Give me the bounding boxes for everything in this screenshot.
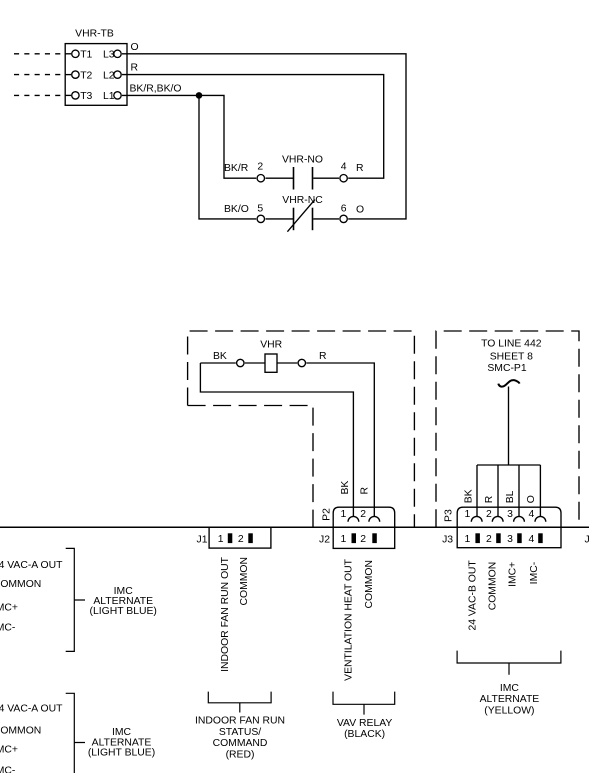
wire into coil left bbox=[200, 362, 235, 364]
P3 pin 1 socket arc bbox=[471, 516, 482, 521]
board edge line bbox=[0, 526, 589, 528]
svg-text:VHR-TB: VHR-TB bbox=[75, 28, 114, 39]
svg-text:R: R bbox=[131, 63, 139, 74]
svg-text:IMC: IMC bbox=[500, 683, 520, 694]
svg-text:COMMAND: COMMAND bbox=[213, 738, 268, 749]
brace group 2 bbox=[66, 693, 85, 773]
svg-text:24 VAC-B OUT: 24 VAC-B OUT bbox=[468, 560, 479, 631]
J3 group brace bbox=[457, 651, 561, 675]
wire R from L2 to VHR-NO pin 4 bbox=[122, 75, 384, 179]
P2 pin 1 socket arc bbox=[348, 516, 359, 521]
svg-text:6: 6 bbox=[341, 203, 347, 214]
dashed enclosure left notch bbox=[188, 406, 313, 528]
svg-text:(YELLOW): (YELLOW) bbox=[484, 705, 534, 716]
svg-text:2: 2 bbox=[238, 534, 244, 545]
J2 group brace bbox=[333, 692, 395, 715]
wire BK/R,BK/O from L1 to VHR-NO pin 2 bbox=[122, 95, 256, 178]
J3 pin 1 contact bbox=[475, 533, 480, 543]
P3 pin 4 socket arc bbox=[535, 516, 546, 521]
svg-text:2: 2 bbox=[257, 161, 263, 172]
connector P2 outline bbox=[333, 507, 395, 527]
wire R side to P2 pin 2 bbox=[306, 363, 374, 517]
svg-text:R: R bbox=[484, 495, 495, 503]
wire branch to VHR-NC pin 5 bbox=[199, 95, 256, 218]
wire to P3 pin 3 bbox=[518, 465, 520, 517]
svg-text:5: 5 bbox=[257, 203, 263, 214]
svg-text:SMC-P1: SMC-P1 bbox=[487, 363, 526, 374]
svg-text:(LIGHT BLUE): (LIGHT BLUE) bbox=[88, 748, 155, 759]
J3 pin 4 contact bbox=[538, 533, 543, 543]
P2 pin 2 socket arc bbox=[369, 516, 380, 521]
svg-text:VHR-NC: VHR-NC bbox=[282, 195, 323, 206]
dashed enclosure right (SMC area) bbox=[436, 331, 579, 527]
terminal T3 bbox=[65, 91, 92, 102]
svg-text:IMC+: IMC+ bbox=[508, 562, 519, 587]
svg-text:IMC+: IMC+ bbox=[0, 603, 18, 614]
svg-text:1: 1 bbox=[218, 534, 224, 545]
bus bar to P3 bbox=[477, 464, 540, 466]
svg-text:COMMON: COMMON bbox=[488, 562, 499, 610]
svg-text:BK: BK bbox=[340, 481, 351, 495]
svg-text:R: R bbox=[360, 487, 371, 495]
J1 group brace bbox=[208, 692, 271, 713]
relay contact VHR-NO bbox=[224, 154, 364, 189]
connector J3 outline bbox=[457, 527, 561, 547]
connector P3 outline bbox=[457, 507, 561, 527]
wire coil to circle bbox=[277, 362, 297, 364]
svg-text:ALTERNATE: ALTERNATE bbox=[480, 694, 540, 705]
svg-text:2: 2 bbox=[360, 509, 366, 520]
svg-text:1: 1 bbox=[341, 534, 347, 545]
svg-text:2: 2 bbox=[486, 534, 492, 545]
svg-text:BK/O: BK/O bbox=[224, 204, 249, 215]
svg-text:BK/R: BK/R bbox=[224, 163, 249, 174]
svg-text:VENTILATION HEAT OUT: VENTILATION HEAT OUT bbox=[343, 558, 354, 680]
svg-text:2: 2 bbox=[486, 509, 492, 520]
svg-text:BK/R,BK/O: BK/R,BK/O bbox=[130, 84, 182, 95]
svg-text:INDOOR FAN RUN OUT: INDOOR FAN RUN OUT bbox=[220, 556, 231, 672]
wire BK side to P2 pin 1 bbox=[200, 363, 353, 517]
wire dashed field lead to T3 bbox=[14, 94, 64, 96]
svg-text:3: 3 bbox=[507, 534, 513, 545]
junction node bbox=[196, 92, 203, 99]
svg-text:4: 4 bbox=[529, 509, 535, 520]
wire O from L3 to VHR-NC pin 6 bbox=[122, 54, 406, 219]
label IMC ALTERNATE (LIGHT BLUE) group 2 bbox=[88, 727, 155, 758]
J1 pin 1 contact bbox=[228, 533, 233, 543]
svg-text:(RED): (RED) bbox=[226, 749, 255, 760]
svg-text:IMC-: IMC- bbox=[0, 623, 15, 634]
svg-text:R: R bbox=[319, 351, 327, 362]
svg-text:COMMON: COMMON bbox=[0, 579, 41, 590]
J3 pin 3 contact bbox=[517, 533, 522, 543]
dashed enclosure left (VHR relay area) bbox=[188, 331, 415, 527]
svg-text:VHR: VHR bbox=[260, 340, 282, 351]
coil terminal circle left bbox=[237, 359, 244, 366]
svg-text:J3: J3 bbox=[442, 534, 453, 545]
connector J2 outline bbox=[333, 527, 395, 548]
coil terminal circle right bbox=[298, 359, 305, 366]
wire dashed field lead to T1 bbox=[14, 53, 64, 55]
caption IMC ALTERNATE (YELLOW) bbox=[480, 683, 540, 716]
svg-text:(BLACK): (BLACK) bbox=[344, 729, 385, 740]
svg-text:R: R bbox=[356, 163, 364, 174]
terminal L2 bbox=[103, 70, 121, 81]
svg-text:4: 4 bbox=[341, 161, 347, 172]
svg-text:T1: T1 bbox=[80, 50, 92, 61]
svg-text:BK: BK bbox=[213, 351, 227, 362]
J1 pin 2 contact bbox=[248, 533, 253, 543]
terminal block VHR-TB outline bbox=[65, 44, 127, 106]
svg-text:L2: L2 bbox=[103, 70, 115, 81]
connector J1 outline bbox=[209, 527, 271, 548]
caption INDOOR FAN RUN STATUS/COMMAND (RED) bbox=[195, 716, 285, 761]
svg-text:O: O bbox=[356, 205, 364, 216]
svg-text:J2: J2 bbox=[319, 534, 330, 545]
svg-text:J1: J1 bbox=[197, 534, 208, 545]
svg-text:COMMON: COMMON bbox=[364, 560, 375, 608]
svg-text:L3: L3 bbox=[103, 50, 115, 61]
svg-text:L1: L1 bbox=[103, 91, 115, 102]
svg-text:T3: T3 bbox=[80, 91, 92, 102]
terminal T2 bbox=[65, 70, 92, 81]
brace group 1 bbox=[66, 548, 85, 651]
J2 pin 2 contact bbox=[372, 533, 377, 543]
svg-text:2: 2 bbox=[360, 534, 366, 545]
svg-text:P3: P3 bbox=[443, 509, 454, 522]
svg-text:P2: P2 bbox=[322, 508, 333, 521]
svg-text:IMC+: IMC+ bbox=[0, 744, 18, 755]
svg-text:VAV RELAY: VAV RELAY bbox=[337, 718, 393, 729]
svg-text:1: 1 bbox=[465, 534, 471, 545]
svg-text:COMMON: COMMON bbox=[239, 557, 250, 605]
break squiggle bbox=[498, 380, 519, 386]
svg-text:24 VAC-A OUT: 24 VAC-A OUT bbox=[0, 704, 63, 715]
wire circle to coil bbox=[245, 362, 265, 364]
P3 pin 2 socket arc bbox=[492, 516, 503, 521]
caption VAV RELAY (BLACK) bbox=[337, 718, 393, 740]
wire to P3 pin 4 bbox=[539, 465, 541, 517]
relay coil VHR body bbox=[265, 354, 277, 372]
svg-text:BL: BL bbox=[505, 490, 516, 503]
svg-text:VHR-NO: VHR-NO bbox=[282, 154, 323, 165]
svg-text:J4: J4 bbox=[585, 534, 589, 545]
svg-text:3: 3 bbox=[507, 509, 513, 520]
wire dashed field lead to T2 bbox=[14, 74, 64, 76]
svg-text:1: 1 bbox=[341, 509, 347, 520]
J2 pin 1 contact bbox=[352, 533, 357, 543]
terminal L3 bbox=[103, 50, 121, 61]
wire SMC-P1 drop bbox=[508, 387, 510, 466]
wire to P3 pin 2 bbox=[497, 465, 499, 517]
svg-text:COMMON: COMMON bbox=[0, 726, 41, 737]
P3 pin 3 socket arc bbox=[514, 516, 525, 521]
relay contact VHR-NC bbox=[224, 195, 364, 232]
wire to P3 pin 1 bbox=[476, 465, 478, 517]
terminal L1 bbox=[103, 91, 121, 102]
svg-text:SHEET 8: SHEET 8 bbox=[490, 352, 533, 363]
svg-text:1: 1 bbox=[465, 509, 471, 520]
label IMC ALTERNATE (LIGHT BLUE) group 1 bbox=[90, 586, 157, 617]
svg-text:4: 4 bbox=[529, 534, 535, 545]
svg-text:STATUS/: STATUS/ bbox=[219, 727, 261, 738]
svg-text:T2: T2 bbox=[80, 70, 92, 81]
svg-text:(LIGHT BLUE): (LIGHT BLUE) bbox=[90, 606, 157, 617]
svg-text:O: O bbox=[526, 495, 537, 503]
svg-text:IMC-: IMC- bbox=[529, 562, 540, 585]
svg-text:24 VAC-A OUT: 24 VAC-A OUT bbox=[0, 560, 63, 571]
J3 pin 2 contact bbox=[496, 533, 501, 543]
svg-text:O: O bbox=[131, 42, 139, 53]
terminal T1 bbox=[65, 50, 92, 61]
svg-text:IMC-: IMC- bbox=[0, 766, 15, 773]
svg-text:TO LINE 442: TO LINE 442 bbox=[481, 338, 542, 349]
svg-text:INDOOR FAN RUN: INDOOR FAN RUN bbox=[195, 716, 285, 727]
svg-text:BK: BK bbox=[463, 489, 474, 503]
